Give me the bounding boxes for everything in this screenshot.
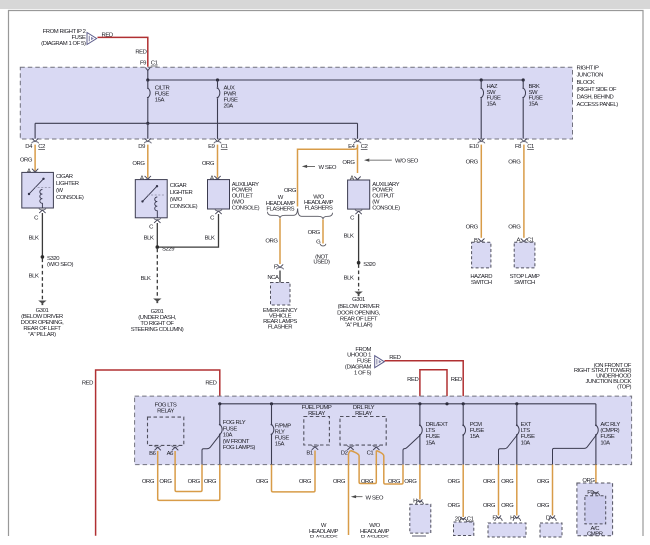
wire ORG E4 down to aux power output A: [357, 145, 359, 173]
underhood junction block: [135, 396, 632, 465]
wire ORG D9 to cigar lighter 2 A: [147, 145, 149, 178]
fuse PCM FUSE 15A: [462, 404, 484, 465]
pin D4 C2: [25, 138, 45, 150]
svg-text:CONSOLE): CONSOLE): [170, 204, 198, 210]
fuse HAZ SW FUSE 15A: [480, 80, 501, 139]
svg-text:15A: 15A: [487, 102, 497, 108]
svg-text:10A: 10A: [600, 440, 610, 446]
node bus-AUX: [216, 78, 219, 81]
20 C1 component box: [454, 522, 474, 536]
wire ORG F8 to stop lamp switch: [523, 145, 525, 238]
wire FOG fuse straight out: [219, 435, 221, 465]
stop lamp switch: [510, 242, 540, 286]
svg-text:ORG: ORG: [265, 239, 278, 245]
label FROM UHOOD 1 FUSE: [345, 347, 372, 377]
brace under W/O headlamp flashers: [298, 209, 333, 220]
wire DRL fuse lever jog: [403, 436, 420, 465]
svg-text:W SEO: W SEO: [366, 495, 384, 501]
svg-text:(W: (W: [56, 188, 64, 194]
A/C CMPR outer box: [577, 483, 613, 536]
svg-text:ORG: ORG: [20, 157, 33, 163]
wire ORG fog fuse to B6: [158, 451, 220, 500]
svg-text:CIGAR: CIGAR: [56, 174, 73, 180]
ground G201: [153, 299, 161, 304]
svg-text:(W FRONT: (W FRONT: [223, 439, 250, 445]
svg-text:RED: RED: [451, 377, 462, 383]
wire ORG DRL fuse to H: [419, 465, 421, 500]
svg-text:FOG LAMPS): FOG LAMPS): [223, 445, 256, 451]
wire DRL fuse straight out: [419, 436, 421, 465]
svg-text:DOOR OPENING,: DOOR OPENING,: [337, 310, 380, 316]
svg-text:ACCESS PANEL): ACCESS PANEL): [577, 102, 619, 108]
node CLTR-subbus: [146, 122, 149, 125]
wire ORG to emergency flasher: [279, 219, 281, 265]
svg-text:ORG: ORG: [508, 159, 521, 165]
wire ORG C1 to DRL fuse pin loop: [376, 451, 403, 485]
wire A/C fuse lever jog to D: [553, 436, 596, 465]
label arrow W SEO: [351, 495, 384, 501]
fuse BRK SW FUSE 15A: [522, 80, 543, 139]
clipped text under H box: [412, 535, 426, 537]
svg-text:ORG: ORG: [501, 503, 514, 509]
svg-text:LIGHTER: LIGHTER: [56, 181, 79, 187]
svg-text:RED: RED: [389, 355, 400, 361]
svg-text:FUSE: FUSE: [223, 426, 238, 432]
svg-text:ORG: ORG: [483, 503, 496, 509]
svg-text:BLK: BLK: [344, 275, 354, 281]
off-page arrow (uhood 1 fuse): [375, 356, 385, 368]
svg-text:BLK: BLK: [29, 274, 39, 280]
svg-text:(BELOW DRIVER: (BELOW DRIVER: [338, 304, 380, 310]
svg-text:BLK: BLK: [205, 235, 215, 241]
label FROM RIGHT IP 2 FUSE: [41, 29, 86, 47]
label W/O HEADLAMP FLASHERS (bottom): [360, 523, 390, 541]
pin B hazard switch: [478, 239, 485, 244]
svg-text:STEERING COLUMN): STEERING COLUMN): [131, 327, 184, 333]
svg-text:LIGHTER: LIGHTER: [170, 190, 193, 196]
wire ORG D4 to cigar lighter A: [34, 145, 36, 171]
wire RED feed to F9: [98, 37, 148, 66]
wire ORG D2 to C1 loop: [351, 451, 377, 484]
wire drop to D9: [147, 123, 149, 138]
svg-text:ORG: ORG: [448, 503, 461, 509]
fuse A/C RLY (CMPR) FUSE 10A: [595, 404, 620, 447]
wire ORG A/C fuse to A/C CMPR: [595, 465, 597, 492]
D component box: [540, 523, 562, 537]
svg-text:"A" PILLAR): "A" PILLAR): [345, 323, 373, 329]
svg-text:(DIAGRAM 1 OF 5): (DIAGRAM 1 OF 5): [41, 41, 86, 47]
svg-text:15A: 15A: [426, 440, 436, 446]
wire ORG EXT fuse to H: [516, 465, 518, 516]
pin A aux power outlet: [214, 176, 221, 181]
pin B6: [154, 445, 161, 450]
svg-text:D2: D2: [341, 451, 348, 457]
svg-text:B1: B1: [306, 451, 313, 457]
svg-text:ORG: ORG: [404, 479, 417, 485]
wire NCA: [279, 271, 281, 283]
svg-text:SWITCH: SWITCH: [471, 280, 492, 286]
pin A aux power output: [354, 177, 361, 182]
svg-text:BLK: BLK: [141, 276, 151, 282]
svg-text:C1: C1: [367, 451, 374, 457]
pin E4 C2: [348, 138, 368, 150]
A/C CMPR inner box: [585, 496, 606, 524]
svg-text:LTS: LTS: [426, 428, 436, 434]
relay FOG LTS RELAY: [148, 403, 184, 446]
svg-text:RED: RED: [205, 380, 216, 386]
svg-text:CONSOLE): CONSOLE): [372, 205, 400, 211]
wire EXT fuse lever jog: [499, 436, 517, 465]
svg-text:ORG: ORG: [508, 224, 521, 230]
svg-text:DASH, BEHIND: DASH, BEHIND: [577, 95, 614, 101]
svg-text:ORG: ORG: [256, 479, 269, 485]
node bus-FPMP: [270, 402, 273, 405]
wire BLK dashed to G201: [156, 249, 158, 298]
svg-text:G301: G301: [352, 297, 365, 303]
svg-text:FUSE: FUSE: [275, 436, 290, 442]
svg-text:D9: D9: [138, 144, 145, 150]
pin A C1 stop lamp switch: [520, 239, 527, 244]
node bus-CLTR: [146, 78, 149, 81]
splice S229: [156, 245, 160, 249]
fuse AUX PWR FUSE 20A: [217, 80, 238, 139]
svg-text:NCA: NCA: [267, 275, 279, 281]
svg-text:C1: C1: [527, 144, 534, 150]
wire A/C fuse straight out: [595, 436, 597, 465]
svg-text:ORG: ORG: [466, 159, 479, 165]
svg-text:EXT: EXT: [521, 422, 532, 428]
svg-text:F9: F9: [140, 61, 146, 67]
pin A cigar lighter 2: [144, 176, 151, 181]
svg-text:ORG: ORG: [299, 479, 312, 485]
svg-text:ORG: ORG: [159, 479, 172, 485]
svg-text:15A: 15A: [470, 434, 480, 440]
pin D9: [138, 138, 151, 150]
wire EXT fuse straight out: [516, 436, 518, 465]
top gray band: [0, 0, 650, 9]
svg-text:D4: D4: [25, 144, 33, 150]
svg-text:BLK: BLK: [29, 235, 39, 241]
node bus-FOG: [218, 402, 221, 405]
wire ORG D2 long drop (W SEO): [349, 451, 351, 536]
pin C1: [373, 445, 380, 450]
F H component box: [488, 523, 526, 537]
right IP junction block: [20, 67, 572, 139]
svg-text:CONSOLE): CONSOLE): [56, 195, 84, 201]
block name text: [577, 65, 619, 108]
svg-text:(TOP): (TOP): [617, 384, 631, 390]
svg-text:DRL/EXT: DRL/EXT: [426, 422, 449, 428]
svg-text:FUSE: FUSE: [600, 434, 615, 440]
pin D2: [347, 445, 354, 450]
svg-text:CMPR: CMPR: [587, 532, 603, 538]
label arrow W/O SEO: [364, 159, 419, 165]
svg-text:PCM: PCM: [470, 422, 482, 428]
svg-text:ORG: ORG: [188, 479, 201, 485]
cigar lighter (W console): [22, 172, 84, 208]
label W/O HEADLAMP FLASHERS: [304, 195, 334, 212]
svg-text:ORG: ORG: [284, 188, 297, 194]
svg-text:ORG: ORG: [537, 479, 550, 485]
cigar lighter (W/O console): [135, 180, 197, 218]
wire ORG E9 to aux power outlet A: [217, 145, 219, 178]
svg-text:(RIGHT SIDE OF: (RIGHT SIDE OF: [577, 87, 617, 93]
pin F9 entry arrow: [145, 68, 150, 71]
svg-text:BLK: BLK: [144, 235, 154, 241]
svg-text:C2: C2: [361, 144, 368, 150]
bottom clip strip: [290, 537, 405, 545]
svg-text:(CMPR): (CMPR): [600, 428, 619, 434]
svg-text:REAR OF LEFT: REAR OF LEFT: [340, 316, 378, 322]
svg-text:15A: 15A: [529, 102, 539, 108]
svg-text:USED): USED): [313, 259, 330, 265]
node bus-EXT: [515, 402, 518, 405]
svg-text:RED: RED: [135, 50, 146, 56]
svg-text:"A" PILLAR): "A" PILLAR): [28, 332, 56, 338]
label W HEADLAMP FLASHERS: [266, 195, 296, 212]
fuse C/LTR FUSE 15A: [147, 80, 170, 123]
bus (lower block): [220, 403, 596, 405]
svg-text:SWITCH: SWITCH: [514, 280, 535, 286]
fuse DRL/EXT LTS FUSE 15A: [419, 404, 448, 447]
svg-text:15A: 15A: [275, 442, 285, 448]
svg-text:ORG: ORG: [204, 479, 217, 485]
svg-text:W SEO: W SEO: [319, 165, 337, 171]
splice S320: [357, 261, 361, 265]
svg-text:ORG: ORG: [308, 230, 321, 236]
svg-text:15A: 15A: [155, 98, 165, 104]
label A/C CMPR: [587, 526, 603, 538]
svg-text:ORG: ORG: [361, 479, 374, 485]
svg-text:BLOCK: BLOCK: [577, 80, 595, 86]
svg-text:S320: S320: [363, 262, 376, 268]
node bus-BRK: [522, 78, 525, 81]
svg-text:20A: 20A: [224, 103, 234, 109]
wire ORG A/C lever to D: [552, 465, 554, 516]
splice S320: [41, 255, 45, 259]
pin A cigar lighter 1: [32, 169, 39, 174]
auxiliary power output (W console): [348, 180, 401, 211]
svg-text:ORG: ORG: [501, 479, 514, 485]
svg-text:E9: E9: [208, 144, 215, 150]
pin C aux power outlet: [215, 209, 222, 214]
svg-text:ORG: ORG: [537, 503, 550, 509]
svg-text:CONSOLE): CONSOLE): [232, 205, 260, 211]
fuse EXT LTS FUSE 10A: [516, 404, 535, 447]
pin F emergency flasher: [277, 264, 284, 269]
svg-text:LTS: LTS: [521, 428, 531, 434]
svg-text:ORG: ORG: [448, 479, 461, 485]
pin F8 C1: [515, 138, 534, 150]
label arrow W SEO: [302, 165, 337, 171]
wire BLK dashed to G301: [41, 259, 43, 300]
wire ORG EXT fuse pin to F: [498, 465, 500, 516]
brace under W headlamp flashers: [268, 209, 298, 219]
relay DRL RLY RELAY: [340, 405, 386, 445]
svg-text:ORG: ORG: [142, 479, 155, 485]
svg-text:ORG: ORG: [483, 479, 496, 485]
hazard switch: [470, 242, 492, 286]
pin C cigar lighter 1: [39, 208, 46, 213]
svg-text:1 OF 5): 1 OF 5): [354, 370, 371, 376]
emergency vehicle rear lamps flasher: [263, 283, 298, 331]
wire FOG fuse lever jog: [202, 435, 220, 465]
svg-text:C2: C2: [38, 144, 45, 150]
wire drop to E4: [357, 123, 359, 138]
node bus-jumper: [445, 402, 448, 405]
svg-text:FLASHERS: FLASHERS: [266, 206, 294, 212]
svg-text:FLASHER: FLASHER: [268, 325, 292, 331]
wire ORG PCM fuse to 20 C1: [462, 465, 464, 517]
fuse FOG RLY FUSE 10A: [219, 404, 255, 451]
svg-text:RELAY: RELAY: [157, 409, 174, 415]
node bus-DRL: [418, 402, 421, 405]
svg-text:10A: 10A: [223, 433, 233, 439]
pin E9 C1: [208, 138, 228, 150]
svg-text:RED: RED: [82, 380, 93, 386]
wire RED left loop feed: [96, 370, 220, 536]
svg-text:JUNCTION: JUNCTION: [577, 73, 604, 79]
pin A6: [172, 445, 179, 450]
off-page arrow (right ip 2 fuse): [87, 33, 97, 45]
pin B1: [312, 445, 319, 450]
relay FUEL PUMP RELAY: [302, 405, 332, 445]
label W HEADLAMP FLASHERS (bottom): [309, 523, 339, 541]
svg-text:BLK: BLK: [344, 234, 354, 240]
wire BLK to S320: [41, 213, 43, 257]
wire ORG E4 branch to headlamp flashers: [298, 147, 358, 207]
svg-text:C1: C1: [221, 144, 228, 150]
svg-text:(W/O: (W/O: [170, 197, 183, 203]
svg-text:E10: E10: [469, 144, 479, 150]
svg-text:ORG: ORG: [342, 160, 355, 166]
svg-text:ORG: ORG: [388, 479, 401, 485]
wire RED jumper loop: [420, 370, 447, 404]
wire BLK to S229: [156, 223, 158, 247]
svg-text:FUSE: FUSE: [426, 434, 441, 440]
svg-text:CIGAR: CIGAR: [170, 183, 187, 189]
svg-text:ORG: ORG: [202, 161, 215, 167]
bus (top block): [148, 79, 523, 81]
fuse F/PMP RLY FUSE 15A: [271, 404, 292, 465]
H component box: [410, 504, 431, 533]
svg-text:RIGHT IP: RIGHT IP: [577, 65, 600, 71]
auxiliary power outlet (W/O console): [208, 180, 260, 212]
svg-text:ORG: ORG: [333, 479, 346, 485]
node bus-HAZ: [480, 78, 483, 81]
svg-text:(W/O SEO): (W/O SEO): [47, 262, 73, 268]
svg-text:FUSE: FUSE: [470, 428, 485, 434]
pin C cigar lighter 2: [154, 218, 161, 223]
wire ORG E10 to hazard switch: [480, 145, 482, 238]
svg-text:W/O SEO: W/O SEO: [395, 159, 419, 165]
svg-text:FUSE: FUSE: [521, 434, 536, 440]
pin E10: [469, 138, 485, 150]
svg-text:FLASHERS: FLASHERS: [305, 206, 333, 212]
wire ORG fog pin to A6: [175, 451, 202, 492]
wire BLK dashed to G301: [358, 264, 360, 290]
wire F9 to bus: [147, 70, 149, 81]
node bus-PCM: [462, 402, 465, 405]
wire RED uhood feed: [385, 361, 464, 404]
svg-text:RED: RED: [407, 377, 418, 383]
wire ORG not used branch: [322, 220, 324, 244]
wire drop to D4: [34, 123, 36, 138]
svg-text:A/C RLY: A/C RLY: [600, 422, 620, 428]
wire BLK output to S320 splice: [358, 214, 360, 263]
svg-text:ORG: ORG: [132, 161, 145, 167]
block name text: [574, 363, 632, 391]
svg-text:10A: 10A: [521, 440, 531, 446]
wire sub-bus: [35, 122, 357, 124]
svg-text:C1: C1: [467, 516, 474, 522]
svg-text:H: H: [413, 499, 417, 505]
pin C aux power output: [355, 209, 362, 214]
wire BLK outlet to S229: [159, 214, 219, 247]
svg-text:RELAY: RELAY: [355, 411, 372, 417]
svg-text:FOG RLY: FOG RLY: [223, 420, 246, 426]
svg-text:RLY: RLY: [275, 429, 285, 435]
ground G301: [38, 301, 46, 306]
wire ORG fpmp fuse to B1: [272, 451, 316, 492]
svg-text:C1: C1: [151, 61, 158, 67]
ground G301 (below driver door): [354, 292, 362, 297]
svg-text:ORG: ORG: [466, 224, 479, 230]
